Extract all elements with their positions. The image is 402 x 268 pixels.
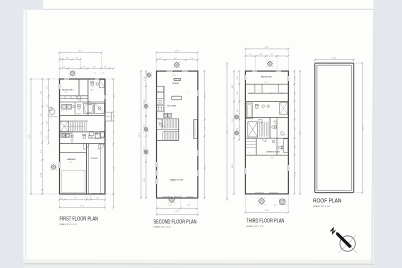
second floor left marker diamond 3 — [144, 127, 148, 131]
third floor right overall dim column — [299, 71, 301, 194]
second floor left marker diamond 4 — [144, 150, 148, 154]
first floor bath1 toilet — [91, 82, 94, 87]
first floor garage north wall — [60, 151, 86, 153]
third floor top dimension row 2 — [245, 55, 288, 57]
third floor bottom window marks — [255, 192, 264, 194]
third floor bath top wall — [245, 101, 288, 103]
svg-text:10'-2": 10'-2" — [232, 84, 234, 88]
first floor entry band wall — [89, 137, 106, 139]
third floor left marker diamond 2 — [235, 131, 239, 135]
svg-text:31'-0": 31'-0" — [78, 51, 83, 53]
first floor left dim column 3 — [48, 79, 50, 144]
svg-text:20'-6": 20'-6" — [205, 165, 207, 169]
third floor stair box diagonals — [248, 122, 258, 137]
sheet right edge shading — [372, 9, 374, 264]
roof plan inner outline — [317, 65, 352, 190]
third floor top dimension row 1 — [245, 48, 288, 50]
third floor bath sink 1 — [262, 105, 265, 108]
third floor bath sink 2 — [267, 105, 270, 108]
first floor wall marker diamond (top) — [70, 71, 75, 76]
below-sheet gray strip — [24, 265, 374, 268]
svg-text:9'-2": 9'-2" — [74, 198, 78, 200]
svg-text:KITCHEN: KITCHEN — [167, 106, 176, 108]
svg-text:16'-4": 16'-4" — [113, 166, 115, 170]
svg-text:31'-0": 31'-0" — [332, 58, 337, 60]
svg-text:DN: DN — [74, 121, 76, 123]
svg-text:2'-6": 2'-6" — [82, 66, 86, 68]
third floor left dim column 1 — [233, 71, 235, 194]
second floor stair arrow — [159, 122, 166, 128]
sheet left edge shading — [25, 10, 28, 264]
svg-text:5'-0": 5'-0" — [47, 121, 49, 125]
first floor bath row bottom wall — [60, 115, 106, 117]
svg-text:OWNERS SUITE: OWNERS SUITE — [266, 151, 281, 153]
first floor foyer left wall — [88, 144, 90, 195]
first floor outer wall — [60, 79, 106, 194]
svg-text:ROOF PLAN: ROOF PLAN — [313, 198, 342, 204]
second floor top extension lines — [156, 54, 158, 71]
first floor stair direction line — [64, 125, 84, 127]
north compass needle — [336, 232, 352, 248]
first floor bottom dimension row 2 — [60, 207, 106, 209]
svg-text:12'-0": 12'-0" — [144, 178, 146, 182]
svg-text:4'-10": 4'-10" — [144, 76, 146, 80]
svg-text:21'-2": 21'-2" — [175, 51, 180, 53]
north compass circle — [340, 236, 355, 251]
third floor bottom extension lines — [244, 194, 246, 213]
second floor bottom dimension row 1 — [157, 207, 197, 209]
second floor range — [157, 106, 164, 112]
second floor fireplace — [194, 120, 198, 139]
svg-text:2'-8": 2'-8" — [274, 205, 277, 207]
svg-text:49'-2": 49'-2" — [29, 134, 31, 138]
svg-text:11'-0": 11'-0" — [265, 82, 269, 84]
third floor top extension lines — [244, 49, 246, 71]
third floor bottom marker diamond 1 — [258, 198, 264, 204]
second floor kitchen sink — [157, 99, 164, 105]
svg-text:BEDROOM 1: BEDROOM 1 — [261, 77, 272, 79]
svg-text:SCALE: 1/4" = 1'-0": SCALE: 1/4" = 1'-0" — [60, 223, 78, 226]
svg-text:5'-4": 5'-4" — [205, 126, 207, 130]
first floor stair side box — [60, 121, 69, 131]
svg-text:5'-9": 5'-9" — [237, 91, 239, 95]
first floor top extension lines — [59, 53, 61, 79]
third floor owners toilet — [278, 146, 283, 149]
svg-text:D: D — [67, 111, 68, 113]
first floor entry fixtures — [90, 132, 94, 136]
second floor bottom dimension row — [157, 214, 198, 216]
third floor right dim column 1 — [293, 71, 295, 194]
third floor bath door arc — [259, 120, 262, 123]
third floor closet bottom line — [248, 92, 288, 94]
svg-text:6'-2": 6'-2" — [47, 103, 49, 107]
first floor mid wall — [60, 131, 106, 133]
svg-text:FIRST FLOOR PLAN: FIRST FLOOR PLAN — [60, 216, 99, 222]
second floor stair treads lower — [162, 132, 164, 140]
svg-text:5'-6": 5'-6" — [47, 85, 49, 89]
third floor hall wall — [245, 117, 288, 119]
svg-text:10'-8": 10'-8" — [113, 93, 115, 97]
svg-text:5'-9": 5'-9" — [294, 91, 296, 95]
svg-text:2'-8": 2'-8" — [104, 66, 108, 68]
third floor left dim column 2 — [238, 71, 240, 140]
first floor bath division — [74, 102, 76, 116]
svg-text:3'-6": 3'-6" — [187, 204, 191, 206]
first floor bath1 sink — [96, 83, 99, 86]
first floor stair top edge — [60, 120, 89, 122]
third floor top wall windows — [252, 70, 257, 72]
first floor bath2 toilet — [78, 105, 81, 110]
second floor kitchen counter edge — [164, 86, 166, 116]
first floor foyer closet wall — [100, 144, 102, 195]
first floor bath2 sink — [73, 105, 76, 108]
first floor foyer door arc — [99, 144, 104, 149]
first floor stoop — [105, 112, 112, 121]
roof plan outer outline — [315, 63, 354, 193]
svg-text:6'-0": 6'-0" — [259, 54, 263, 56]
second floor stair right wall — [178, 119, 180, 141]
svg-text:DN: DN — [172, 127, 174, 129]
first floor closet band top line — [60, 95, 89, 97]
second floor sideboard — [174, 78, 180, 80]
second floor left wall windows — [156, 162, 158, 167]
first floor left dim column 2 — [41, 79, 43, 194]
first floor right wall window — [104, 95, 106, 99]
first floor bath2 shower — [95, 103, 105, 113]
first floor left extension stubs — [31, 78, 60, 80]
first floor bottom dimension row 1 — [60, 199, 106, 201]
svg-text:7'-4": 7'-4" — [75, 57, 79, 59]
first floor left wall marker diamond — [51, 164, 56, 169]
svg-text:SCALE: 1/4" = 1'-0": SCALE: 1/4" = 1'-0" — [246, 225, 264, 228]
first floor bath1 shower — [100, 80, 105, 88]
svg-text:6'-0": 6'-0" — [294, 108, 296, 112]
first floor top wall windows — [64, 78, 69, 80]
svg-text:2'-10": 2'-10" — [281, 93, 285, 95]
first floor garage pad — [62, 170, 85, 193]
third floor bedroom2 bottom wall — [245, 83, 288, 85]
first floor laundry washer — [62, 104, 67, 109]
first floor top dimension row 2 — [60, 58, 81, 60]
first floor entry door arc — [84, 144, 90, 150]
third floor outer wall — [245, 71, 288, 194]
svg-text:9'-10": 9'-10" — [40, 172, 42, 176]
second floor left marker diamond 1 — [147, 73, 152, 78]
roof plan extension stubs — [314, 60, 316, 63]
third floor owners sink — [272, 140, 275, 143]
first floor bath door arc — [88, 101, 91, 104]
third floor right wall windows — [287, 76, 289, 81]
first floor powder room fixtures — [61, 133, 65, 137]
svg-text:49'-2": 49'-2" — [300, 130, 302, 134]
first floor left overall dim column — [30, 79, 32, 194]
svg-text:21'-2": 21'-2" — [175, 211, 179, 213]
second floor top dimension row 1 — [157, 52, 198, 54]
third floor owners bath wall — [276, 138, 278, 155]
svg-text:7'-4": 7'-4" — [113, 130, 115, 134]
second floor fridge — [157, 86, 164, 92]
svg-text:7'-6": 7'-6" — [270, 54, 274, 56]
svg-text:DN: DN — [263, 125, 265, 127]
first floor garage top wall — [60, 143, 106, 145]
svg-text:6'-0": 6'-0" — [237, 108, 239, 112]
north compass cross line NW-SE — [337, 233, 357, 253]
svg-text:5'-8": 5'-8" — [294, 145, 296, 149]
svg-text:18'-6": 18'-6" — [232, 164, 234, 168]
first floor left exterior cluster — [50, 109, 55, 115]
second floor kitchen bottom counter — [163, 113, 167, 117]
svg-text:BEDROOM 3: BEDROOM 3 — [62, 90, 73, 92]
first floor closet dividers — [64, 96, 66, 99]
second floor stair top line — [157, 118, 179, 120]
second floor left overall dim column — [140, 71, 142, 198]
second floor top wall windows — [167, 70, 173, 72]
svg-text:6'-10": 6'-10" — [237, 127, 239, 131]
svg-text:7'-6": 7'-6" — [249, 54, 253, 56]
svg-text:FOYER: FOYER — [91, 158, 98, 160]
third floor stair bottom wall — [245, 137, 288, 139]
third floor wc room wall — [276, 118, 278, 139]
third floor closet dividers — [254, 84, 256, 93]
second floor pantry — [157, 119, 163, 130]
third floor shower — [280, 103, 288, 115]
svg-text:6'-8": 6'-8" — [144, 124, 146, 128]
svg-text:11'-0": 11'-0" — [65, 92, 69, 94]
svg-text:31'-0": 31'-0" — [265, 47, 269, 49]
first floor right dim column — [112, 79, 114, 208]
svg-text:6'-2": 6'-2" — [96, 198, 100, 200]
svg-text:21'-2": 21'-2" — [172, 75, 176, 77]
svg-text:4'-4": 4'-4" — [237, 76, 239, 80]
svg-text:49'-2": 49'-2" — [139, 132, 141, 136]
second floor bottom extension lines — [156, 198, 158, 215]
north compass cross line NE-SW — [339, 236, 357, 253]
third floor top marker diamond — [267, 61, 272, 66]
svg-text:6'-0": 6'-0" — [174, 58, 178, 60]
first floor bedroom door arc — [76, 96, 80, 100]
third floor bottom dimension row — [245, 212, 288, 214]
first floor bath2 tub — [84, 103, 94, 113]
svg-text:5'-6": 5'-6" — [40, 149, 42, 153]
svg-text:10'-0": 10'-0" — [144, 99, 146, 103]
second floor top dimension row 2 — [157, 59, 198, 61]
second floor top marker diamond — [174, 62, 179, 67]
second floor bottom window marks — [162, 196, 170, 198]
first floor garage right wall — [86, 144, 88, 195]
third floor wc toilet — [272, 126, 277, 129]
third floor bath toilet — [255, 104, 258, 109]
svg-text:12'-10": 12'-10" — [294, 172, 296, 177]
svg-text:4'-0": 4'-0" — [66, 57, 70, 59]
svg-text:4'-4": 4'-4" — [294, 76, 296, 80]
second floor right dim column — [204, 71, 206, 198]
second floor counter block — [157, 92, 164, 99]
svg-text:SCALE: 1/4" = 1'-0": SCALE: 1/4" = 1'-0" — [313, 205, 331, 208]
first floor bottom wall window marks — [92, 192, 98, 194]
first floor closet band bottom line — [60, 98, 89, 100]
background notch top-left — [24, 0, 44, 10]
svg-text:4'-6": 4'-6" — [93, 66, 97, 68]
svg-text:31'-0": 31'-0" — [80, 205, 84, 207]
svg-text:6'-4": 6'-4" — [40, 131, 42, 135]
first floor top dimension row 1 — [60, 52, 102, 54]
sheet bottom edge line — [24, 263, 375, 265]
svg-text:6'-2": 6'-2" — [294, 127, 296, 131]
second floor outer right dim column — [226, 64, 228, 200]
third floor owners bath bottom wall — [245, 154, 288, 156]
first floor left wall windows — [59, 84, 61, 89]
third floor bottom marker circle — [279, 199, 285, 205]
roof plan top dimension — [315, 59, 354, 61]
second floor bottom marker diamond — [169, 197, 175, 203]
first floor top dimension row 3 — [60, 67, 114, 69]
svg-text:2'-10": 2'-10" — [113, 114, 115, 118]
svg-text:49'-2": 49'-2" — [362, 125, 364, 130]
third floor wc door arc — [274, 121, 277, 124]
svg-text:14'-8": 14'-8" — [270, 158, 274, 160]
second floor right wall windows — [197, 90, 199, 96]
third floor left wall window — [244, 75, 246, 80]
first floor bedroom3 right wall — [78, 79, 80, 96]
third floor walk-in closet — [255, 138, 257, 155]
sheet top edge line — [43, 8, 374, 10]
second floor stair bottom wall — [157, 140, 179, 142]
second floor left dim column 2 — [145, 71, 147, 198]
second floor kitchen island — [172, 96, 182, 100]
svg-text:SCALE: 1/4" = 1'-0": SCALE: 1/4" = 1'-0" — [154, 226, 172, 229]
second floor outer wall — [157, 71, 198, 198]
second floor stair treads upper — [162, 119, 164, 128]
svg-text:SECOND FLOOR PLAN: SECOND FLOOR PLAN — [154, 219, 197, 225]
svg-text:16'-2": 16'-2" — [205, 93, 207, 97]
svg-text:4'-2": 4'-2" — [47, 135, 49, 139]
svg-text:49'-2": 49'-2" — [227, 129, 229, 133]
svg-text:5'-6": 5'-6" — [40, 113, 42, 117]
first floor stair treads — [68, 121, 70, 131]
svg-text:3'-6": 3'-6" — [159, 58, 163, 60]
north compass letter N — [330, 228, 335, 233]
third floor stair treads — [257, 122, 259, 137]
svg-text:GARAGE: GARAGE — [67, 158, 77, 161]
svg-text:THIRD FLOOR PLAN: THIRD FLOOR PLAN — [246, 218, 284, 224]
svg-text:DINING: DINING — [172, 83, 179, 85]
first floor right extension stubs — [105, 78, 113, 80]
svg-text:9'-0": 9'-0" — [40, 91, 42, 95]
third floor left marker diamond 1 — [235, 115, 239, 119]
svg-text:20'-6": 20'-6" — [171, 180, 175, 182]
second floor bottom extension line mid — [180, 198, 182, 208]
first floor laundry dryer — [67, 104, 72, 109]
roof plan right dimension column — [361, 63, 363, 193]
second floor left marker diamond 2 — [144, 104, 148, 108]
third floor tub — [246, 103, 252, 118]
third floor linen room arc — [281, 132, 284, 135]
svg-text:19'-8": 19'-8" — [69, 162, 73, 164]
first floor hall wall — [60, 101, 106, 103]
second floor stair landing lines — [163, 128, 178, 130]
third floor stair right wall — [269, 118, 271, 139]
third floor suite door arc — [262, 138, 266, 142]
svg-text:3'-6": 3'-6" — [190, 58, 194, 60]
svg-text:31'-0": 31'-0" — [265, 210, 269, 212]
first floor bath wall vertical — [87, 79, 89, 116]
first floor bottom extension lines — [59, 194, 61, 208]
third floor owners tub — [284, 139, 288, 153]
svg-text:MECH: MECH — [63, 136, 67, 138]
sheet bottom shadow band — [24, 260, 375, 265]
